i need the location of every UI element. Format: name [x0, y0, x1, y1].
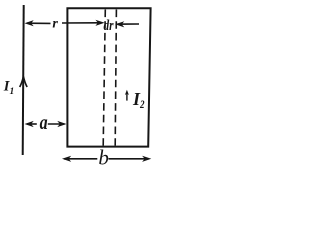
r left arrowhead — [25, 20, 34, 26]
dimension line a — [27, 123, 37, 125]
wire current arrowhead — [20, 77, 27, 88]
rectangle loop — [67, 8, 150, 146]
dashed line right (strip boundary) — [115, 10, 116, 146]
svg-text:dr: dr — [104, 18, 114, 34]
a left arrowhead — [25, 121, 34, 127]
dimension line b — [64, 158, 97, 160]
svg-text:a: a — [40, 111, 48, 135]
wire (long straight wire carrying I1) — [23, 5, 24, 155]
dr left-pointing arrowhead — [115, 21, 124, 27]
svg-text:r: r — [52, 17, 58, 32]
svg-text:b: b — [98, 146, 109, 170]
I2 current arrow — [126, 94, 128, 101]
dimension line r — [27, 22, 51, 24]
b left arrowhead — [62, 156, 71, 162]
r right arrowhead — [95, 20, 104, 26]
dr right pointer line — [118, 23, 140, 25]
b right arrowhead — [142, 156, 151, 162]
dashed line left (strip boundary) — [103, 10, 105, 146]
a right arrowhead — [57, 121, 66, 127]
